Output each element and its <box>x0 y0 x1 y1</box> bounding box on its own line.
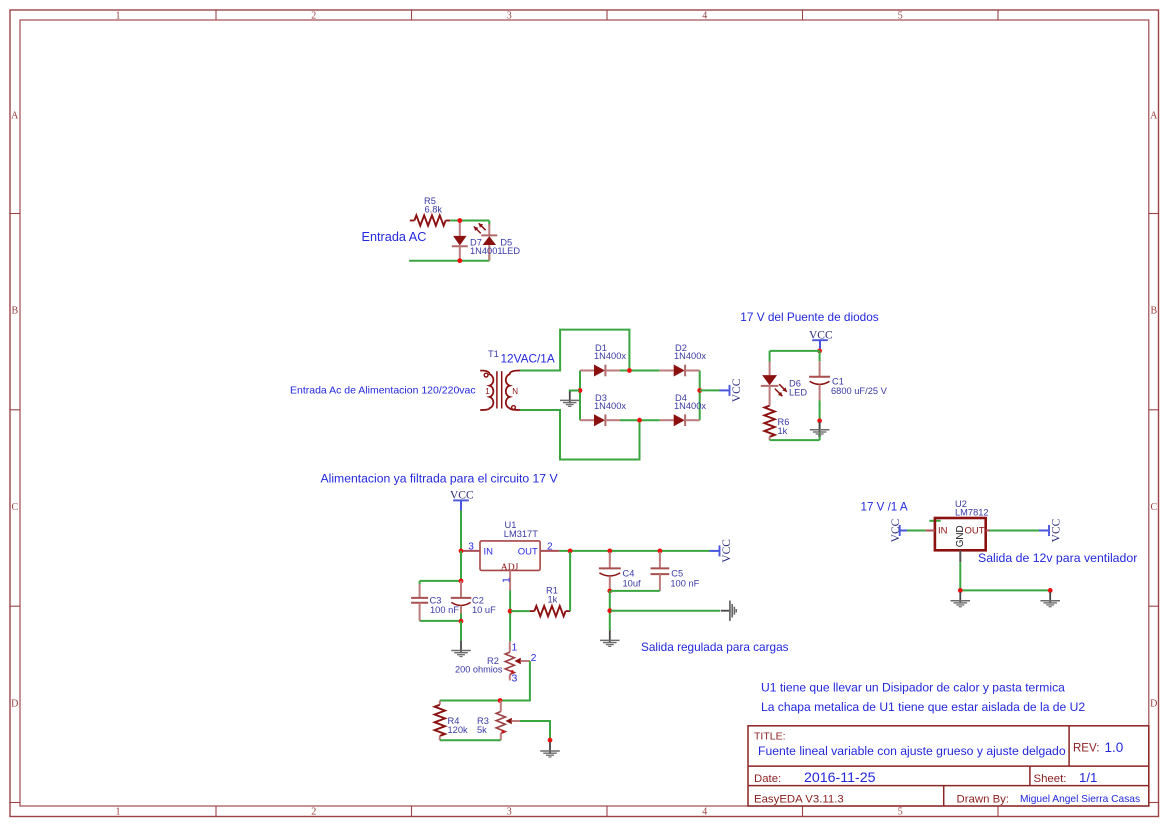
svg-text:Salida regulada para cargas: Salida regulada para cargas <box>641 640 789 654</box>
svg-text:TITLE:: TITLE: <box>754 731 786 743</box>
svg-text:REV:: REV: <box>1073 743 1099 755</box>
svg-text:2: 2 <box>311 807 316 818</box>
svg-text:5k: 5k <box>477 725 487 735</box>
svg-text:1k: 1k <box>778 426 788 436</box>
svg-text:1: 1 <box>512 642 518 654</box>
svg-text:GND: GND <box>955 525 966 547</box>
svg-text:1N400x: 1N400x <box>674 401 706 411</box>
svg-text:Salida de 12v para ventilador: Salida de 12v para ventilador <box>978 551 1137 565</box>
svg-text:LM7812: LM7812 <box>955 507 989 517</box>
svg-text:Entrada Ac de Alimentacion 120: Entrada Ac de Alimentacion 120/220vac <box>290 385 476 397</box>
svg-text:C: C <box>11 502 18 513</box>
svg-text:1N400x: 1N400x <box>594 351 626 361</box>
svg-text:120k: 120k <box>448 725 469 735</box>
svg-text:5: 5 <box>898 807 903 818</box>
svg-text:1: 1 <box>485 387 490 396</box>
svg-text:Sheet:: Sheet: <box>1034 773 1067 785</box>
svg-text:C1: C1 <box>832 376 844 386</box>
svg-text:Drawn By:: Drawn By: <box>957 794 1010 806</box>
svg-text:10 uF: 10 uF <box>472 605 496 615</box>
svg-text:Date:: Date: <box>754 773 781 785</box>
svg-text:10uf: 10uf <box>623 578 642 588</box>
svg-text:C5: C5 <box>671 569 683 579</box>
svg-text:1: 1 <box>500 577 512 583</box>
svg-text:17 V /1 A: 17 V /1 A <box>861 501 908 514</box>
svg-text:2: 2 <box>311 10 316 21</box>
svg-text:2016-11-25: 2016-11-25 <box>804 770 876 786</box>
svg-text:100 nF: 100 nF <box>670 578 699 588</box>
svg-text:12VAC/1A: 12VAC/1A <box>501 352 555 366</box>
svg-text:1N400x: 1N400x <box>674 351 706 361</box>
svg-text:17 V del Puente de diodos: 17 V del Puente de diodos <box>740 310 878 324</box>
svg-text:Miguel Angel Sierra Casas: Miguel Angel Sierra Casas <box>1020 794 1140 805</box>
svg-text:D: D <box>1150 698 1157 709</box>
svg-text:100 nF: 100 nF <box>430 605 459 615</box>
svg-text:1.0: 1.0 <box>1105 740 1124 755</box>
svg-text:3: 3 <box>468 542 474 553</box>
svg-text:1: 1 <box>116 10 121 21</box>
svg-text:1N400x: 1N400x <box>594 401 626 411</box>
svg-text:VCC: VCC <box>890 518 902 542</box>
svg-text:B: B <box>1150 306 1157 317</box>
svg-text:C: C <box>1150 502 1157 513</box>
svg-text:6.8k: 6.8k <box>425 205 443 215</box>
svg-text:LM317T: LM317T <box>504 529 538 539</box>
svg-text:B: B <box>11 306 18 317</box>
svg-text:IN: IN <box>484 547 494 558</box>
svg-text:C4: C4 <box>623 569 635 579</box>
svg-text:LED: LED <box>789 388 807 398</box>
svg-text:LED: LED <box>502 246 520 256</box>
svg-text:OUT: OUT <box>965 525 985 536</box>
svg-text:D: D <box>11 698 18 709</box>
svg-text:1N4001: 1N4001 <box>470 246 503 256</box>
svg-text:2: 2 <box>547 542 553 553</box>
svg-text:3: 3 <box>507 10 512 21</box>
svg-text:A: A <box>11 111 19 122</box>
svg-text:C3: C3 <box>430 596 442 606</box>
svg-text:6800 uF/25 V: 6800 uF/25 V <box>831 386 888 396</box>
svg-text:N: N <box>512 387 518 396</box>
svg-text:La chapa metalica de U1 tiene: La chapa metalica de U1 tiene que estar … <box>761 700 1085 714</box>
svg-text:U1 tiene que llevar un Disipad: U1 tiene que llevar un Disipador de calo… <box>761 681 1065 695</box>
svg-text:1k: 1k <box>548 594 558 604</box>
svg-text:200 ohmios: 200 ohmios <box>455 665 503 675</box>
svg-text:Fuente lineal variable con aju: Fuente lineal variable con ajuste grueso… <box>758 744 1066 758</box>
svg-text:T1: T1 <box>488 349 499 359</box>
svg-text:VCC: VCC <box>1051 518 1063 542</box>
svg-text:OUT: OUT <box>518 547 538 558</box>
svg-text:VCC: VCC <box>721 539 733 563</box>
svg-text:1/1: 1/1 <box>1079 770 1097 785</box>
svg-text:C2: C2 <box>472 596 484 606</box>
svg-text:4: 4 <box>702 807 707 818</box>
svg-text:3: 3 <box>507 807 512 818</box>
svg-text:1: 1 <box>116 807 121 818</box>
svg-text:2: 2 <box>531 652 537 664</box>
svg-text:5: 5 <box>898 10 903 21</box>
svg-text:Alimentacion ya filtrada para: Alimentacion ya filtrada para el circuit… <box>321 472 559 486</box>
svg-text:4: 4 <box>702 10 707 21</box>
svg-text:VCC: VCC <box>731 378 743 402</box>
svg-text:EasyEDA V3.11.3: EasyEDA V3.11.3 <box>754 794 844 806</box>
svg-text:A: A <box>1150 111 1158 122</box>
svg-text:Entrada AC: Entrada AC <box>362 230 427 244</box>
svg-text:3: 3 <box>512 672 518 684</box>
svg-text:IN: IN <box>938 525 948 536</box>
